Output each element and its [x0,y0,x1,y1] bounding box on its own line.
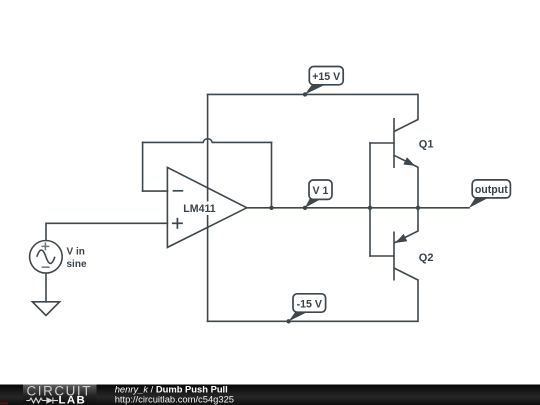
wire inverting input stub [143,190,168,192]
node +15V tap [303,92,307,96]
svg-text:-15 V: -15 V [297,298,322,310]
svg-text:V 1: V 1 [313,185,329,197]
svg-text:sine: sine [67,259,87,270]
wire Q2 base [370,255,394,257]
svg-text:+15 V: +15 V [312,71,340,83]
wire feedback right vertical [271,142,273,207]
footer bar [0,385,540,405]
source plus mark [41,242,49,250]
svg-text:V in: V in [67,246,85,257]
label flag V 1 [305,180,332,208]
svg-text:Q2: Q2 [419,252,434,264]
node base junction [368,206,372,210]
svg-text:Q1: Q1 [419,139,434,151]
footer logo background [23,385,97,405]
node emitter junction [416,206,420,210]
svg-text:LM411: LM411 [183,203,215,215]
node feedback junction [269,206,273,210]
op-amp U1 LM411 [167,167,246,247]
wire op-amp supply vertical [207,94,209,321]
wire source to ground [45,273,47,302]
svg-text:output: output [475,184,508,196]
node junction dots [269,92,420,323]
logo resistor and diode symbol [26,397,58,403]
label flag +15 V [305,67,343,95]
wire feedback top with hop [143,139,272,143]
wire feedback left vertical [142,142,144,191]
source minus mark [42,266,50,268]
label flag -15 V [289,294,326,322]
wire top +15V rail [208,94,418,119]
node V1 tap [303,206,307,210]
wire Q1 base [370,142,394,144]
ground [32,302,59,316]
transistor Q2 (PNP) [394,208,418,281]
Q1 emitter arrow [403,157,415,166]
wire bottom -15V rail [208,280,418,321]
label flag output [469,180,511,208]
wire non-inverting input [46,223,167,240]
svg-text:http://circuitlab.com/c54g325: http://circuitlab.com/c54g325 [115,394,234,405]
wire op-amp output node [246,207,469,209]
svg-text:LAB: LAB [59,395,87,405]
transistor Q1 (NPN) [394,118,418,208]
voltage source V1 sine [30,240,63,273]
logo diode triangle [46,397,53,404]
wire transistor base vertical [369,143,371,256]
node -15V tap [286,319,290,323]
Q2 emitter arrow [395,234,407,243]
footer red mark [0,402,8,404]
